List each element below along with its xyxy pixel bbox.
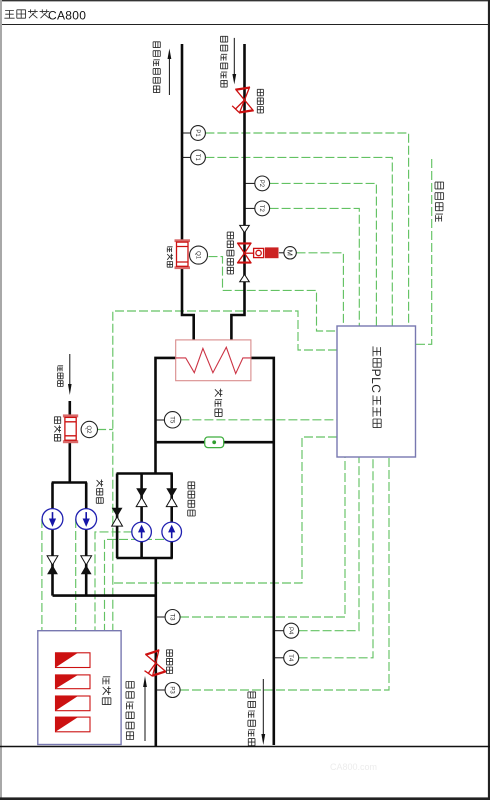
wire T2 to PLC (270, 208, 360, 326)
pipe circulation header right (117, 557, 173, 560)
pipe secondary supply from HX (251, 358, 274, 745)
stub T return (156, 616, 165, 618)
heat meter transmitter circle (190, 246, 208, 264)
label makeup pumps (97, 480, 104, 487)
valve actuator stem (279, 252, 284, 254)
label secondary return (126, 682, 134, 689)
instrument T2 (255, 201, 270, 216)
svg-text:Q1: Q1 (194, 251, 200, 260)
header rule (0, 24, 490, 26)
HX outlet temperature sensor (164, 412, 180, 428)
svg-text:CA800.com: CA800.com (330, 762, 377, 772)
heat exchanger coil (176, 347, 251, 373)
svg-text:P4: P4 (287, 627, 293, 635)
stub T1 (182, 156, 191, 158)
flow reducer before valve (240, 225, 250, 232)
VFD label (103, 677, 110, 685)
label circulation pumps (188, 482, 195, 489)
VFD inverter flags (56, 653, 91, 668)
stub T supply (274, 657, 284, 659)
pipe makeup discharge trunk (53, 594, 157, 597)
pipe secondary return main (154, 558, 157, 747)
wire T1 to PLC (205, 157, 392, 326)
VFD cabinet box U3 (38, 631, 121, 745)
wire P1 to PLC (205, 133, 408, 326)
wire makeup pump B to VFD (75, 519, 77, 630)
svg-text:Q2: Q2 (85, 425, 91, 434)
valve circulation branch middle (136, 488, 147, 497)
instrument P1 (191, 126, 206, 141)
wire heat-meter to PLC (209, 257, 338, 331)
svg-text:P1: P1 (194, 129, 200, 137)
stub P2 (245, 182, 255, 184)
top border line (0, 0, 490, 2)
instrument T1 (191, 150, 206, 165)
label primary supply (221, 36, 228, 42)
check valve makeup upper (81, 556, 92, 565)
label strainer F1 (257, 89, 263, 96)
label soft water (58, 366, 63, 372)
wire T-supply to PLC (299, 457, 373, 658)
valve circulation branch upper (166, 488, 177, 497)
label secondary supply (248, 692, 256, 698)
circulation pump A (132, 522, 152, 542)
strainer F2 on secondary return (140, 650, 167, 678)
wire P-return to PLC (180, 457, 389, 690)
label strainer F2 (167, 650, 173, 657)
valve circulation bypass (112, 508, 123, 517)
heat exchanger U1 body (176, 340, 251, 381)
instrument P supply (284, 623, 299, 638)
svg-text:P3: P3 (168, 686, 174, 694)
footer rule (0, 746, 490, 748)
label makeup meter (54, 417, 60, 424)
label control valve (227, 232, 233, 239)
wire HX-temp to PLC (180, 419, 337, 421)
stub P1 (182, 132, 191, 134)
control valve V1 body (237, 243, 278, 263)
flow reducer after valve (240, 274, 250, 281)
bottom border (0, 797, 490, 800)
pipe makeup header left (52, 481, 87, 484)
circulation pump B (162, 522, 182, 542)
pipe primary supply (231, 44, 244, 340)
wire makeup-meter to trunk (97, 429, 113, 431)
instrument P2 (255, 176, 270, 191)
leader secondary supply flow arrow (262, 679, 264, 734)
heat meter FE1 (175, 239, 191, 269)
leader secondary return flow arrow (144, 687, 146, 741)
label heat exchanger (215, 389, 223, 397)
strainer F1 on primary supply (230, 87, 254, 114)
svg-text:PLC: PLC (369, 369, 383, 394)
makeup pump A (42, 509, 63, 530)
stub P supply (274, 630, 284, 632)
wire PLC comm to VFD (113, 437, 337, 583)
leader primary supply flow arrow (233, 38, 235, 74)
makeup pump B (76, 509, 97, 530)
instrument P return (165, 683, 180, 698)
makeup meter FE2 (63, 414, 78, 443)
copyright text (4, 11, 14, 19)
svg-text:T5: T5 (168, 416, 174, 424)
pipe HX secondary outlet to pump suction (156, 358, 176, 474)
svg-text:CA800: CA800 (48, 9, 86, 23)
makeup meter transmitter (81, 421, 97, 437)
motor M circle (284, 247, 296, 259)
pipe makeup branch lower (51, 483, 54, 596)
pipe circulation branch upper (170, 474, 173, 559)
check valve makeup lower (47, 556, 58, 565)
wire circulation pump B to VFD (105, 539, 165, 630)
stub T2 (245, 207, 255, 209)
instrument T return (165, 610, 180, 625)
wire trunk PLC to VFD (113, 311, 337, 630)
pipe circulation header left (117, 472, 173, 475)
pipe makeup water (68, 401, 71, 483)
wire M motor to PLC (297, 253, 344, 326)
svg-text:P2: P2 (258, 180, 264, 188)
svg-text:T3: T3 (168, 613, 174, 621)
label heat meter (167, 247, 172, 253)
instrument T supply (284, 650, 299, 665)
label primary return (153, 42, 160, 48)
stub HX temperature sensor (156, 419, 165, 421)
svg-text:T4: T4 (287, 654, 293, 662)
left border (0, 0, 2, 800)
svg-text:T2: T2 (258, 205, 264, 213)
flow switch on crossline (205, 437, 224, 448)
wire P-supply to PLC (299, 457, 359, 631)
stub P return (156, 689, 165, 691)
wire P2 to PLC (270, 183, 377, 326)
label remote communication (435, 182, 444, 189)
pipe bypass crossline (156, 441, 274, 444)
leader primary return flow arrow (168, 59, 170, 95)
wire remote-comm to PLC (416, 159, 432, 344)
wire T-return to PLC (180, 457, 345, 617)
rotated landscape schematic (38, 36, 444, 747)
pipe makeup branch upper (85, 483, 88, 596)
right border (488, 0, 490, 800)
pipe circulation branch middle (140, 474, 143, 559)
pipe primary return (182, 44, 194, 340)
svg-text:M: M (286, 250, 295, 256)
pipe circulation bypass branch (116, 474, 119, 559)
PLC controller box U2 (337, 326, 416, 457)
wire makeup pump A to VFD (41, 519, 43, 630)
leader soft water flow arrow (69, 354, 71, 384)
svg-text:T1: T1 (194, 154, 200, 162)
PLC label (373, 346, 381, 356)
wire circulation pump A to VFD (95, 532, 133, 630)
